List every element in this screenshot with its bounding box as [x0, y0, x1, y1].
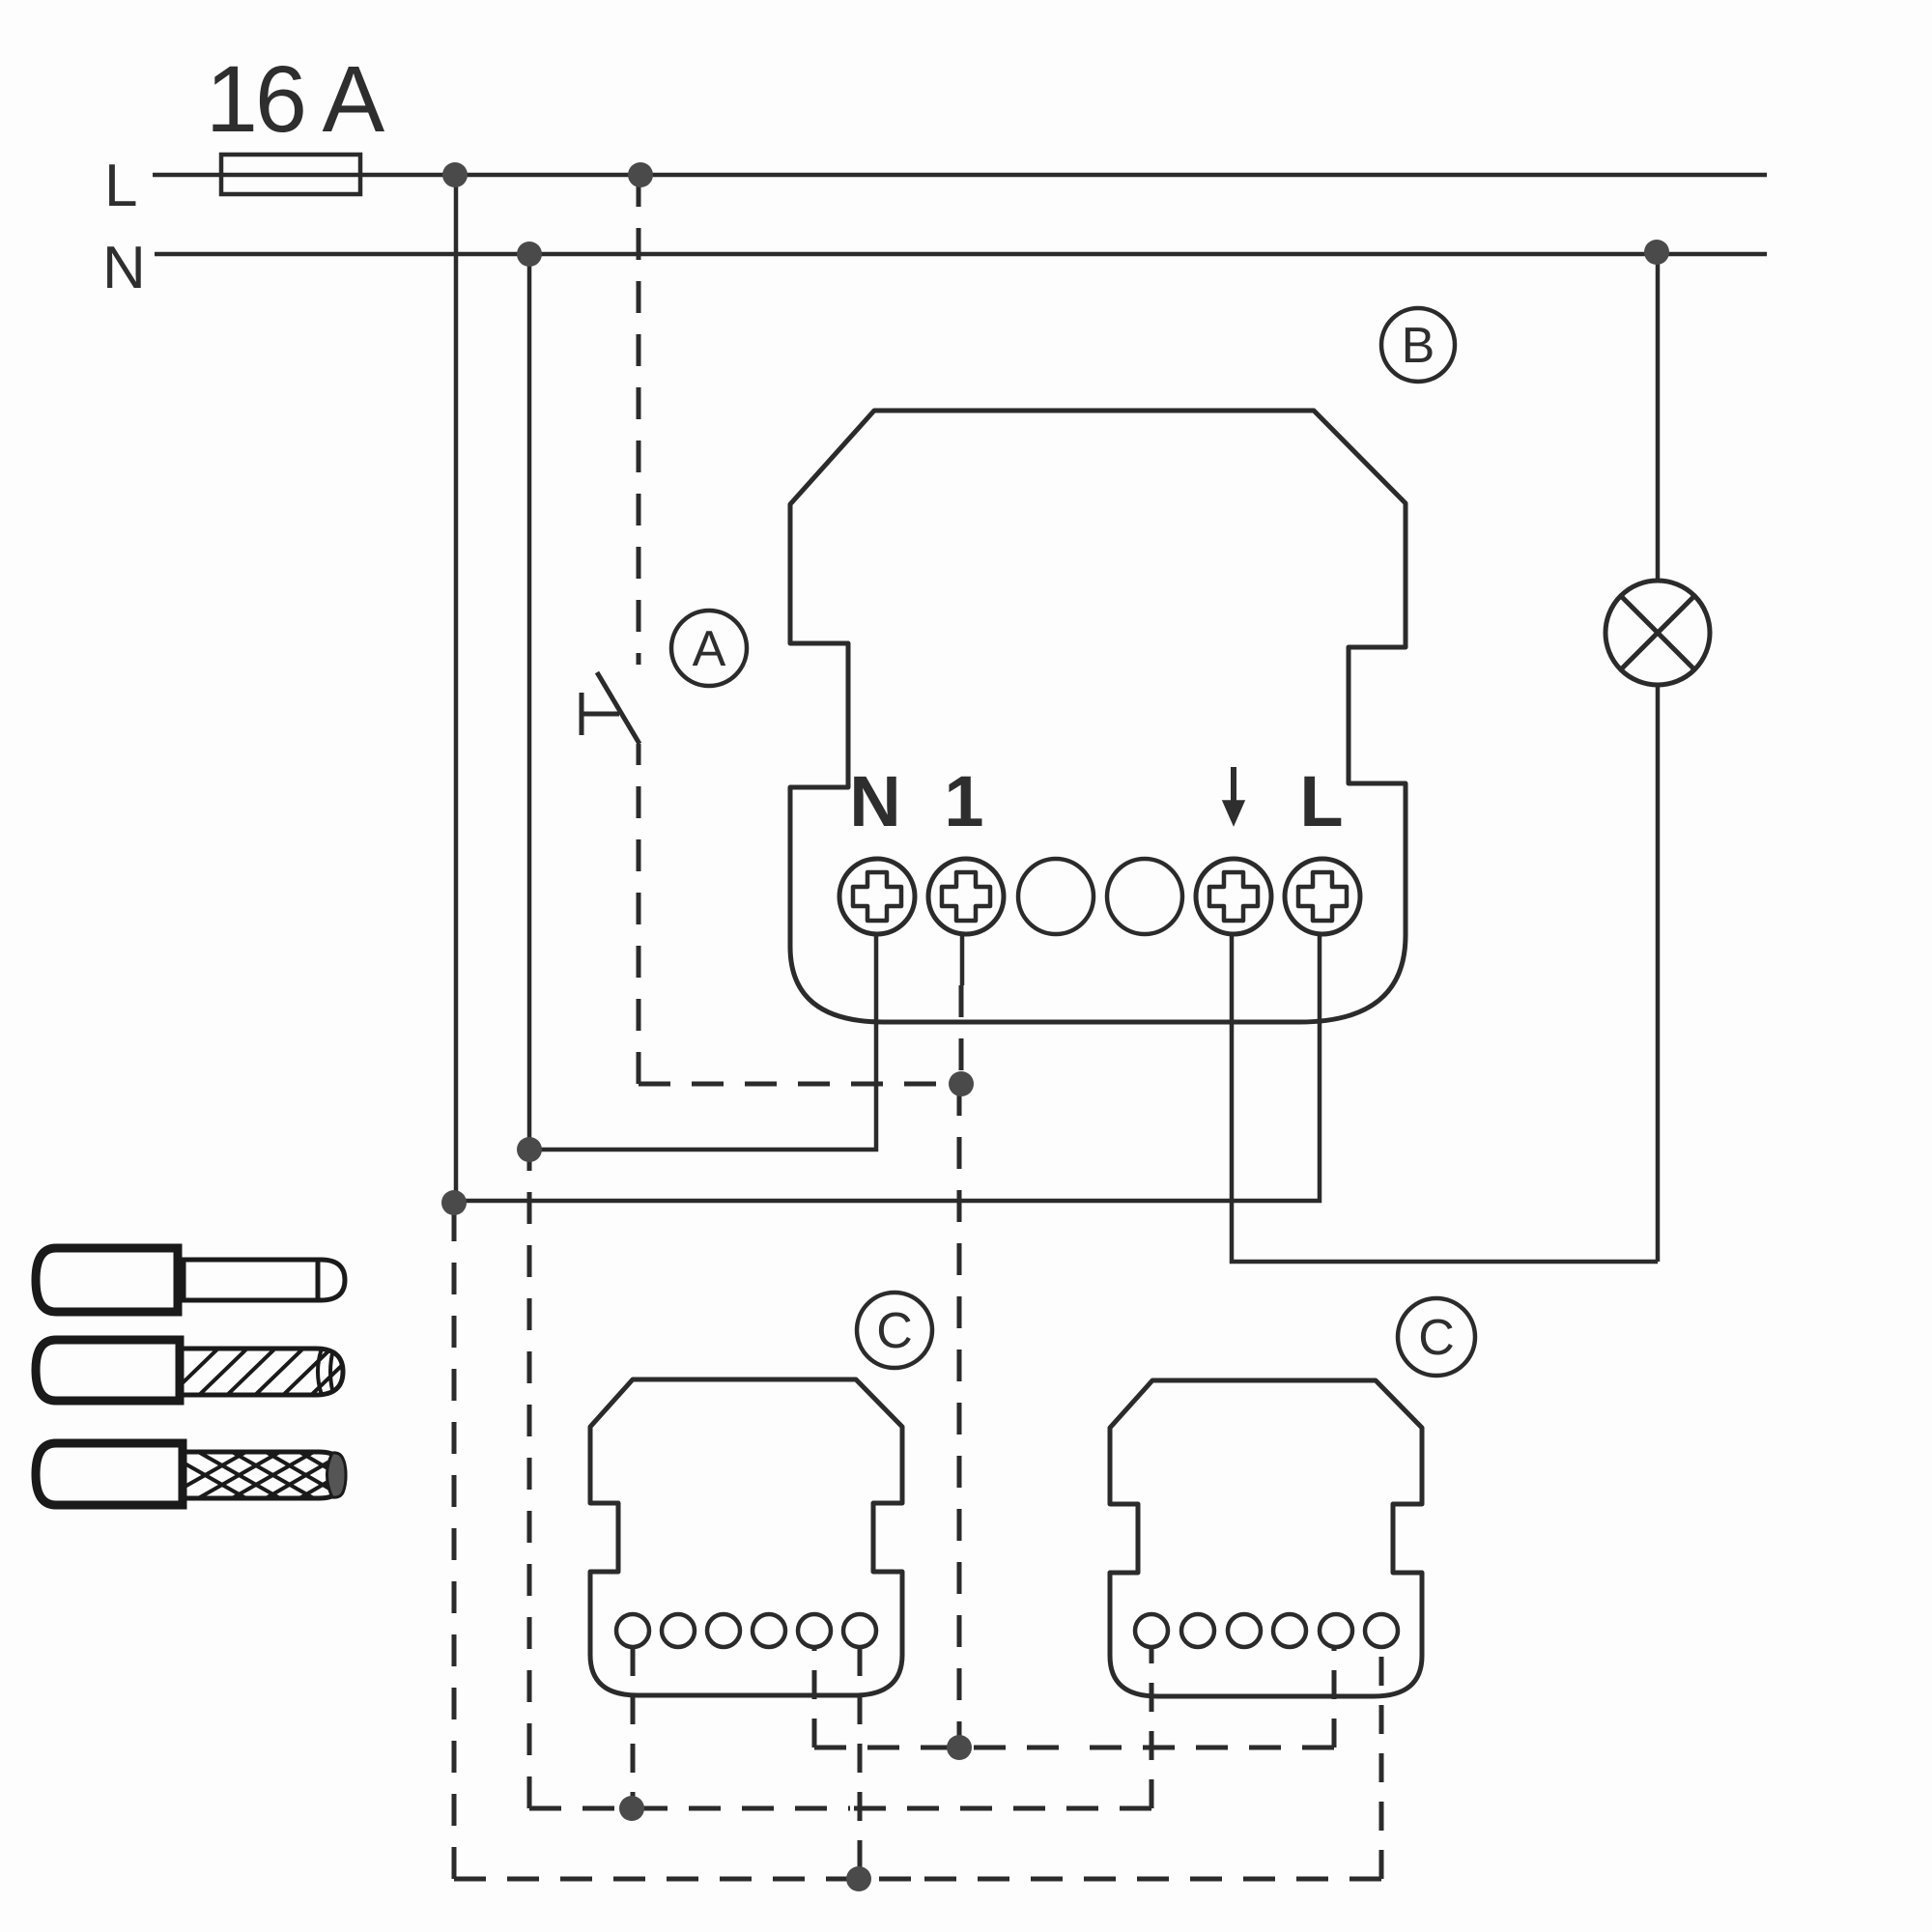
wire junction to H1 (dashed vertical)	[957, 1084, 962, 1747]
terminal B-L screw	[1285, 859, 1360, 934]
wire B-L terminal to L junction	[454, 936, 1320, 1201]
wire L feed dashed continuation to H3	[452, 1203, 457, 1879]
terminal B-3 empty	[1018, 859, 1094, 934]
wire B-1 terminal stub (solid then dashed)	[960, 936, 965, 985]
wire H1 dashed bus	[814, 1746, 1072, 1750]
wire lamp to switched line	[1656, 685, 1661, 1262]
terminal B-N screw	[839, 859, 915, 934]
svg-text:C: C	[1418, 1310, 1455, 1366]
switch A blade	[597, 672, 639, 744]
circle label C (left)	[857, 1293, 932, 1368]
wire B-arrow terminal to lamp	[1232, 936, 1658, 1262]
wire B-N terminal to N junction	[529, 936, 876, 1150]
device C right outline	[1110, 1380, 1422, 1696]
svg-text:L: L	[104, 153, 137, 219]
svg-text:N: N	[102, 235, 146, 301]
wire lamp feed from N line	[1656, 252, 1661, 581]
junction dot switch/1	[949, 1071, 974, 1096]
wire L line	[153, 173, 1767, 178]
fuse F1 16A	[221, 155, 360, 194]
svg-text:16 A: 16 A	[206, 46, 384, 152]
wire C-left terminal1 to H2	[631, 1647, 636, 1808]
switch A actuator contact	[582, 693, 619, 735]
junction dot N mid	[517, 1137, 542, 1162]
terminal B-4 empty	[1107, 859, 1182, 934]
terminal B-arrow screw	[1196, 859, 1271, 934]
junction dot L mid	[441, 1190, 467, 1215]
junction dot H2	[619, 1796, 644, 1821]
junction dot N line 1	[517, 241, 542, 267]
lamp E1	[1605, 581, 1710, 685]
circle label C (right)	[1398, 1298, 1475, 1376]
wire N feed drop (solid)	[527, 254, 532, 1150]
svg-text:B: B	[1402, 318, 1435, 374]
device C left outline	[590, 1379, 902, 1695]
cable 1 solid conductor	[36, 1248, 345, 1312]
wire N feed dashed continuation to H2	[527, 1150, 532, 1808]
arrow label (switched output)	[1231, 767, 1236, 805]
junction dot L line 1	[442, 162, 468, 187]
wire C-left terminal5 to H1	[812, 1647, 817, 1747]
svg-text:1: 1	[944, 761, 983, 841]
wire L feed drop (solid)	[454, 175, 459, 1203]
wire switch feed drop (dashed)	[637, 175, 641, 665]
terminal B-1 screw	[928, 859, 1004, 934]
junction dot N line lamp	[1644, 240, 1669, 265]
svg-text:N: N	[849, 761, 900, 841]
junction dot H1	[947, 1735, 972, 1760]
device C left terminals	[616, 1614, 876, 1647]
circle label B	[1381, 308, 1455, 382]
wire C-right terminal1 to H2	[1150, 1647, 1154, 1808]
device B flush-mount insert outline	[790, 411, 1406, 1022]
svg-text:L: L	[1299, 761, 1343, 841]
svg-text:A: A	[693, 621, 726, 677]
wire switch output (dashed) down then right to junction	[637, 744, 641, 1084]
wire N line	[155, 252, 1767, 257]
wire C-right terminal6 to H3	[1379, 1647, 1384, 1879]
svg-text:C: C	[876, 1303, 913, 1359]
circle label A	[671, 611, 747, 686]
device C right terminals	[1135, 1614, 1398, 1647]
cable 2 stranded conductor	[36, 1340, 363, 1403]
wire C-left terminal6 to H3	[858, 1647, 863, 1879]
cable 3 braided conductor	[36, 1443, 357, 1505]
junction dot H3	[846, 1866, 871, 1891]
junction dot L line 2	[628, 162, 653, 187]
wire C-right terminal5 to H1	[1332, 1647, 1337, 1747]
